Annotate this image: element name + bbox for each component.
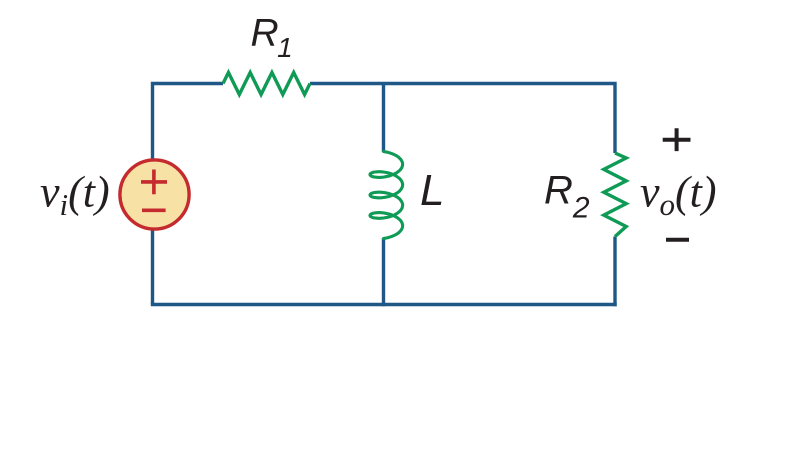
wire bottom rail: [151, 303, 617, 306]
wire top-left segment: [153, 84, 224, 162]
wire top-right segment: [310, 84, 615, 154]
wire middle branch top: [382, 84, 385, 153]
source plus sign: [141, 170, 167, 195]
source minus sign: [142, 209, 166, 213]
wire left bottom segment: [151, 229, 154, 305]
inductor L: [370, 152, 403, 239]
resistor R1: [223, 73, 310, 95]
wire middle branch bottom: [382, 238, 385, 306]
svg-text:vo(t): vo(t): [640, 168, 717, 223]
wire right bottom segment: [613, 237, 616, 307]
minus sign (output polarity): [666, 238, 689, 242]
svg-text:L: L: [420, 166, 444, 215]
resistor R2: [604, 153, 626, 237]
svg-text:vi(t): vi(t): [40, 168, 110, 223]
plus sign (output polarity): [663, 128, 691, 151]
voltage source vi circle: [120, 160, 189, 229]
